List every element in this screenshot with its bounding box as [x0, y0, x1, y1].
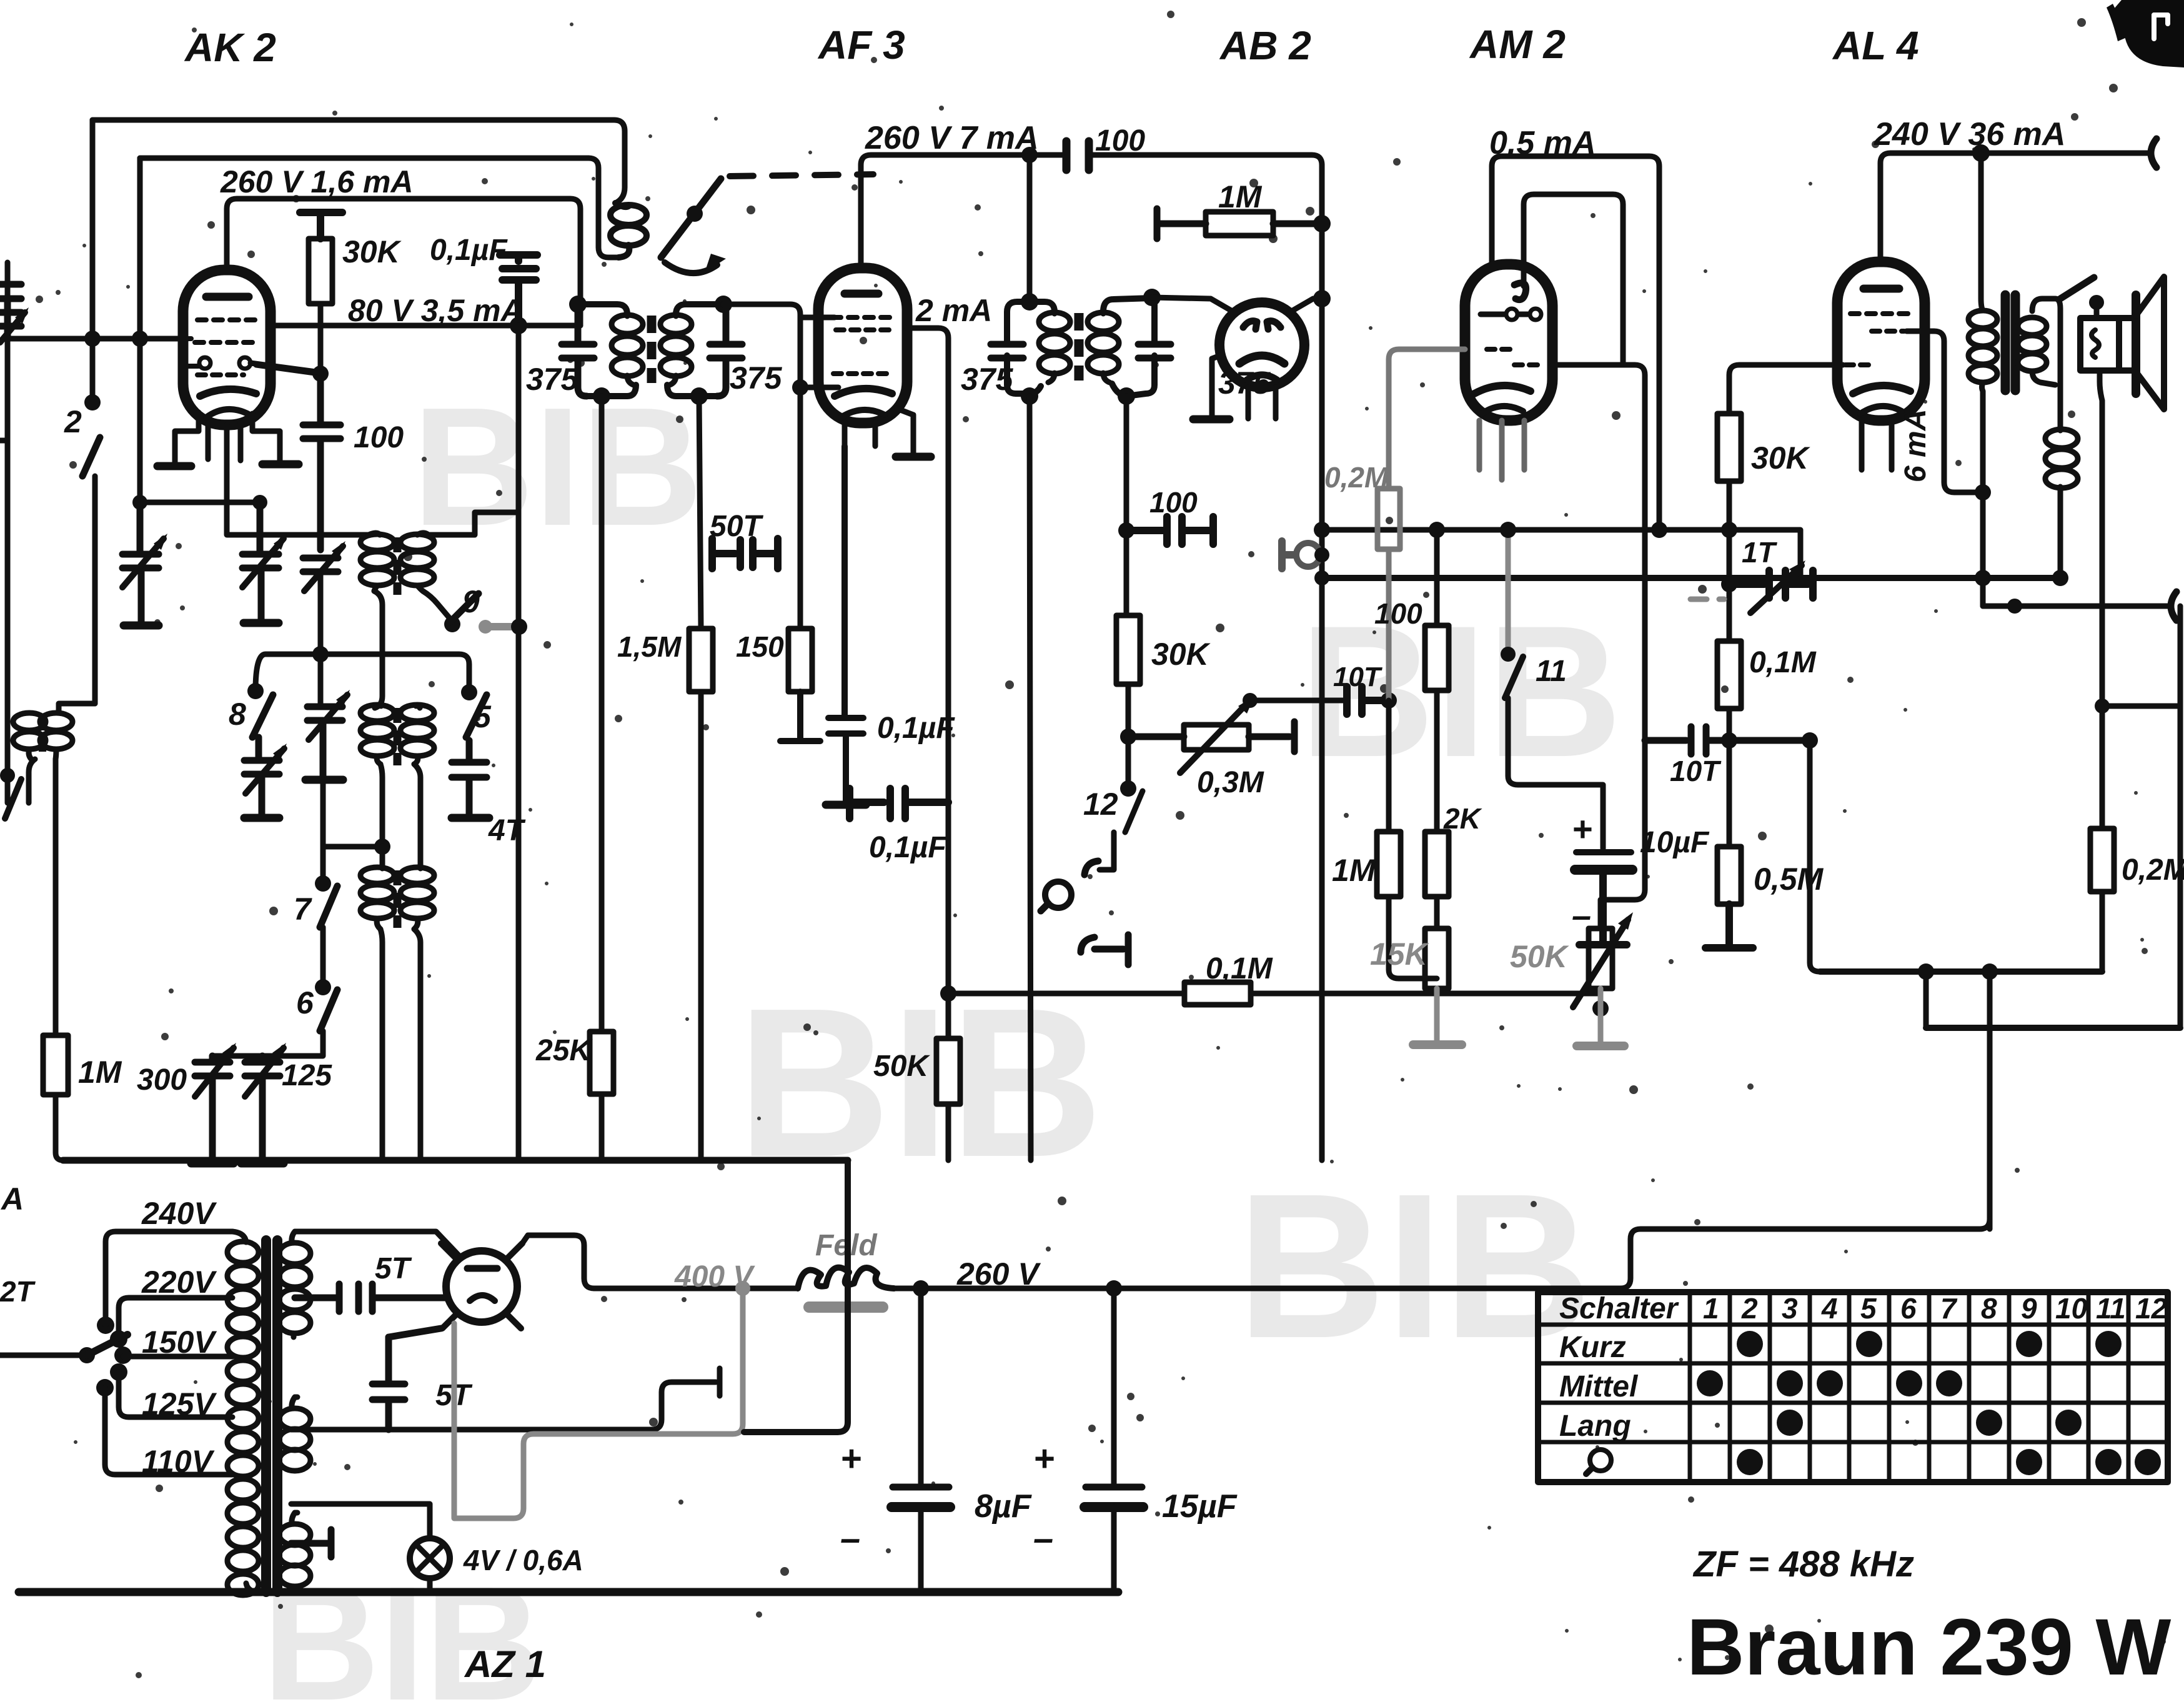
osc transformer T_B [360, 705, 434, 765]
wire far-left vertical [5, 262, 11, 803]
ground T5 [305, 776, 343, 784]
capacitor 100 series in rail [1066, 141, 1089, 170]
wire top rail 2 [140, 156, 588, 161]
svg-text:260 V 7 mA: 260 V 7 mA [865, 120, 1039, 156]
speaker cone [2119, 318, 2132, 371]
svg-text:260 V 1,6 mA: 260 V 1,6 mA [220, 164, 414, 199]
node dot 1M right [1313, 215, 1331, 232]
wire y1555 line [1820, 968, 2102, 975]
wire T_B left bottom to node [380, 764, 382, 847]
resistor 150 [798, 387, 803, 629]
svg-text:0,1M: 0,1M [1749, 646, 1817, 679]
table column lines [1690, 1292, 2128, 1482]
wire y1130 line [2102, 704, 2180, 709]
svg-text:+: + [1572, 809, 1592, 849]
wire 1M to bus [56, 1095, 63, 1160]
node dot y1555 x3083 [1918, 963, 1934, 980]
terminal hook rail right [2151, 139, 2157, 167]
wire 400V tap gray [454, 1288, 743, 1518]
wire AL4 screen to primary bottom [1907, 331, 1979, 492]
wire 30K top T [300, 212, 342, 239]
node dot diode line [1313, 290, 1331, 307]
label 400V gray [454, 1260, 755, 1518]
svg-text:240V: 240V [141, 1196, 217, 1231]
wire AB2 diode to vertical [1289, 299, 1322, 312]
svg-text:220V: 220V [141, 1265, 217, 1300]
svg-text:100: 100 [1095, 124, 1145, 157]
resistor 0.1M AL4 [1717, 641, 1741, 709]
wire 0.1M down [1727, 709, 1732, 847]
WATERMARKS [262, 373, 1622, 1707]
ground bus G [63, 1157, 848, 1164]
IF1 right leg capacitor 375 [710, 304, 742, 396]
ground T2 [244, 619, 279, 627]
IF1 left leg capacitor 375 [562, 304, 594, 396]
wire 25K to bus [599, 1094, 605, 1160]
node IF2 right bottom dot [1118, 387, 1135, 405]
svg-text:375: 375 [730, 361, 783, 396]
wire 50K to bus [946, 1104, 951, 1160]
ground 4T [452, 814, 489, 822]
wave switch arrow [665, 262, 717, 273]
wire HV top to AZ1 [295, 1232, 460, 1257]
wire AVC bus A [1322, 530, 1800, 584]
tube AZ1 circle [446, 1251, 517, 1322]
svg-text:10T: 10T [1333, 662, 1382, 692]
wire screen line from tube [256, 365, 319, 374]
ground 0.1uF bypass [826, 801, 866, 809]
svg-text:7: 7 [294, 892, 312, 927]
wire switch 11 to 10uF [1508, 698, 1603, 849]
wire ground L from bus G [744, 1160, 848, 1432]
trimmer far-left partial [0, 312, 21, 326]
svg-text:A: A [0, 1182, 24, 1217]
svg-text:0,2M: 0,2M [1324, 461, 1389, 494]
resistor 0.5M [1717, 847, 1741, 904]
capacitor 100 AB2 [1126, 517, 1213, 544]
tube AL4 anode bar [1864, 285, 1899, 293]
ground 125 [241, 1160, 284, 1168]
wire x517 up to T5 ground [320, 780, 326, 847]
node dot jack [1314, 547, 1329, 562]
capacitor 15uF [1106, 1280, 1122, 1296]
ground AF3 cathode [896, 453, 931, 461]
IF1 core [647, 316, 657, 383]
wire speaker return down [2100, 371, 2102, 829]
wire lamp to bus [427, 1578, 433, 1591]
node dot AM2 anode bus [1651, 522, 1667, 538]
wire 10T node down to 1M [1386, 700, 1392, 832]
svg-text:25K: 25K [535, 1034, 593, 1067]
node dot 220V contact [110, 1330, 127, 1348]
node screen dot [312, 366, 329, 382]
node dot bus B x2116 [1314, 570, 1329, 585]
svg-text:BIB: BIB [737, 964, 1103, 1202]
wire AF3 grid from IF1 [723, 304, 800, 387]
svg-text:AF 3: AF 3 [817, 22, 905, 67]
node dot y970 [2007, 599, 2022, 614]
switch table frame [1538, 1292, 2168, 1482]
IF2 right leg capacitor [1138, 344, 1171, 358]
wire screen circles row to 30K node [251, 363, 320, 372]
wire x152 to small coil [59, 704, 95, 712]
resistor 2K [1425, 832, 1449, 897]
svg-text:AL 4: AL 4 [1832, 23, 1919, 68]
tube AK2 anode bar [206, 293, 249, 301]
wire 1.5M down to bus [698, 692, 704, 1160]
table dots phono [1737, 1449, 2161, 1475]
svg-text:260 V: 260 V [956, 1257, 1041, 1291]
tube AB2 diode plates [1243, 321, 1281, 329]
wire HV centre tap [295, 1284, 339, 1311]
wire x513 to osc bus [318, 572, 324, 707]
terminal switch9 gray [479, 620, 516, 634]
svg-text:4T: 4T [488, 814, 526, 847]
node switch2 dot [84, 394, 101, 411]
svg-text:–: – [840, 1518, 860, 1559]
svg-text:100: 100 [1149, 486, 1198, 519]
node dot rail x1648 [1021, 147, 1038, 163]
tube AK2 grid rows [197, 317, 256, 322]
wire grid line into AK2 [7, 336, 187, 342]
tube AZ1 stubs [441, 1243, 522, 1328]
transformer heater secondary [279, 1513, 310, 1592]
svg-text:7: 7 [1940, 1292, 1958, 1325]
wire 1M bottom [1389, 897, 1437, 978]
node dot x3185 y1555 [1982, 963, 1998, 980]
node dot x224 grid [132, 331, 148, 347]
wire AK2 osc grid down [227, 425, 369, 535]
tube AK2 grid circles row [199, 357, 211, 369]
wire 260V rail AF3 [861, 155, 1322, 268]
svg-text:6: 6 [296, 985, 314, 1020]
capacitor 8uF [913, 1280, 929, 1296]
svg-text:0,1M: 0,1M [1206, 952, 1273, 985]
wire B+ line with Feld [594, 1286, 1621, 1291]
svg-text:10T: 10T [1670, 755, 1722, 787]
dashed stub gray [1690, 597, 1724, 602]
svg-text:6 mA: 6 mA [1899, 409, 1932, 482]
svg-text:10µF: 10µF [1640, 826, 1710, 859]
wire 0.2M down to y1555 [2100, 892, 2105, 972]
resistor 25K [590, 1032, 613, 1094]
table row lines [1538, 1325, 2168, 1442]
tube AF3 cathode arcs [835, 389, 892, 396]
wire AVC line 0.1M [948, 993, 1601, 1008]
svg-text:0,3M: 0,3M [1197, 766, 1264, 799]
svg-text:0,1µF: 0,1µF [869, 831, 947, 864]
node dot y1355 [374, 839, 390, 855]
capacitor 10T [1347, 687, 1389, 714]
svg-text:2K: 2K [1443, 802, 1482, 835]
osc transformer T_A [360, 533, 434, 595]
svg-text:8: 8 [1981, 1292, 1997, 1325]
wire AB2 cathode to ground [1212, 355, 1222, 417]
IF1 right tank box top [676, 304, 723, 314]
ground 0.5M [1705, 904, 1753, 948]
node dot 1T [1721, 576, 1737, 592]
node dot y849 [1118, 522, 1134, 539]
svg-text:12: 12 [2135, 1292, 2168, 1325]
svg-text:0,1µF: 0,1µF [430, 234, 508, 267]
wire IF2 top to AB2 diode [1152, 297, 1234, 312]
wire mains lead [0, 1353, 82, 1358]
node IF2 top-left dot [1021, 293, 1038, 311]
capacitor 0.1uF cathode bypass [828, 446, 863, 805]
table dots Kurz [1737, 1331, 2122, 1357]
svg-text:Schalter: Schalter [1559, 1292, 1679, 1325]
svg-text:2T: 2T [0, 1275, 36, 1308]
wire AB2 main vertical [1319, 165, 1325, 1160]
IF1 secondary coil loops [660, 315, 692, 385]
svg-text:Mittel: Mittel [1559, 1370, 1639, 1403]
svg-text:0,2M: 0,2M [2122, 853, 2184, 887]
speaker terminal dot [2089, 295, 2104, 310]
wire 100 to 2K [1434, 690, 1440, 832]
choke Feld [815, 1229, 878, 1262]
node dot x1518 AVC [940, 985, 956, 1002]
wire T_C right bottom down to bus [414, 929, 420, 1160]
wire x2897 down [1810, 740, 1820, 972]
wire right edge vertical [2178, 606, 2183, 1028]
tube AF3 envelope [818, 268, 907, 423]
phono jack AB2 [1282, 541, 1320, 569]
wire heater top to lamp [291, 1504, 430, 1538]
svg-text:100: 100 [1374, 597, 1422, 630]
svg-text:50K: 50K [873, 1050, 930, 1083]
ground 300 [191, 1160, 234, 1168]
node dot pot [1120, 729, 1136, 745]
antenna coupling coil L1 [610, 203, 647, 257]
wire far-left stub y700 [0, 438, 7, 444]
resistor 1M AB2 [1157, 209, 1322, 239]
wire jumper y1355 [323, 844, 382, 850]
node dot bus B right end [2052, 570, 2068, 586]
capacitor far-left to ground [0, 284, 21, 339]
node dot 150V contact [114, 1346, 132, 1364]
jumper y804 [140, 500, 260, 505]
svg-text:30K: 30K [1151, 637, 1211, 672]
svg-text:2: 2 [1741, 1292, 1758, 1325]
svg-text:8: 8 [229, 697, 246, 732]
ground under AK2 left [157, 462, 191, 470]
wire T_A left bottom down [374, 591, 382, 708]
svg-text:1,5M: 1,5M [617, 630, 682, 663]
svg-text:Kurz: Kurz [1559, 1331, 1626, 1364]
table header numbers [1703, 1292, 2168, 1325]
IF2 primary coil loops [1039, 312, 1070, 382]
wire heater centre tap [291, 1530, 331, 1557]
node dot 100 col bus [1429, 522, 1445, 538]
tube AL4 pins [1862, 421, 1892, 470]
node dot AVC bus x2116 [1314, 522, 1330, 538]
svg-text:15K: 15K [1370, 937, 1430, 972]
IF1 left bottom edge [587, 385, 636, 396]
transformer HV secondary [279, 1232, 310, 1337]
output transformer primary [1968, 153, 1997, 606]
wire screen stub [800, 315, 835, 321]
tube AZ1 anode bars [467, 1265, 497, 1272]
jack hook upper [1085, 861, 1098, 875]
svg-text:11: 11 [1536, 655, 1567, 688]
tube AL4 envelope [1837, 262, 1925, 421]
svg-text:150: 150 [736, 630, 784, 663]
ground 15K gray [1434, 988, 1440, 1042]
wire coil bottom to rail2 corner [588, 158, 618, 257]
resistor 0.1M horizontal [1184, 982, 1251, 1005]
svg-text:30K: 30K [1751, 440, 1811, 475]
wire 30K to pot [1126, 684, 1131, 737]
node IF1 right bottom dot [690, 387, 708, 405]
wire osc bus y1047 [256, 654, 469, 692]
potentiometer 50K AM2 [1589, 928, 1612, 988]
svg-text:300: 300 [137, 1063, 187, 1097]
transformer core [266, 1240, 277, 1592]
wire IF2 right bottom down [1124, 396, 1129, 615]
svg-text:240 V 36 mA: 240 V 36 mA [1874, 116, 2065, 152]
svg-text:1M: 1M [1332, 853, 1376, 888]
wire 30K bottom to screen node [318, 304, 324, 374]
svg-text:6: 6 [1900, 1292, 1917, 1325]
svg-text:4: 4 [1821, 1292, 1838, 1325]
wire grid into tube [800, 385, 838, 391]
resistor 1M left [43, 1035, 68, 1095]
wire hook line y970 [1983, 604, 2169, 609]
capacitor 0.1uF coupling [850, 789, 948, 819]
svg-text:Lang: Lang [1559, 1410, 1631, 1443]
node dot 240V contact [97, 1316, 114, 1334]
wire T_A right top jumper [429, 512, 519, 535]
node IF2 top-right dot [1143, 289, 1161, 306]
svg-text:125: 125 [282, 1059, 332, 1092]
svg-text:1M: 1M [1218, 179, 1263, 214]
wire x3083 down [1923, 972, 1929, 1028]
IF2 right tank box [1103, 298, 1154, 396]
node dot rail x3171 [1972, 144, 1990, 162]
resistor 15K [1425, 928, 1449, 988]
svg-text:50K: 50K [1510, 939, 1570, 974]
jack circle [1045, 882, 1071, 908]
svg-text:1T: 1T [1742, 536, 1778, 569]
resistor 1M AM2 [1377, 832, 1401, 897]
wire AM2 outer anode loop [1492, 156, 1659, 530]
switch 11 [1506, 530, 1511, 652]
tube AM2 cathode arcs [1474, 386, 1531, 394]
wire AL4 anode rail [1880, 153, 2149, 262]
power bottom bus [19, 1588, 1118, 1596]
node dot 0.1uF junction [510, 317, 527, 334]
svg-text:5: 5 [1860, 1292, 1877, 1325]
wire AM2 grid2 to pot column [1552, 365, 1645, 928]
svg-text:2: 2 [64, 404, 82, 439]
wire IF1 left bottom to 25K [599, 396, 605, 1032]
wire AZ1 to B+ [522, 1235, 594, 1288]
ground T1 [124, 622, 159, 630]
wave switch dashed line [730, 174, 873, 176]
wire B+ to right riser [1621, 1219, 1990, 1288]
tube AF3 anode bar [845, 290, 878, 298]
resistor 50K AF3 [936, 1038, 960, 1104]
wire IF2 left bottom long down [1030, 396, 1031, 1160]
wire AF3 anode down [907, 328, 948, 1038]
osc transformer T_C [360, 847, 434, 929]
svg-text:AB 2: AB 2 [1219, 23, 1311, 68]
svg-text:ZF = 488 kHz: ZF = 488 kHz [1692, 1544, 1914, 1585]
svg-text:AK 2: AK 2 [184, 25, 276, 70]
svg-text:15µF: 15µF [1162, 1488, 1238, 1525]
wire y1645 line [1926, 1025, 2180, 1031]
lamp 4V 0.6A [410, 1538, 450, 1578]
wire secondary right leg upper [2055, 299, 2060, 429]
svg-text:3: 3 [1782, 1292, 1798, 1325]
transformer primary winding [227, 1232, 259, 1595]
table dots Lang [1777, 1410, 2082, 1436]
wire small coil to 1M [29, 759, 56, 1035]
ground 50K gray [1598, 988, 1604, 1043]
terminal hook y970 [2171, 592, 2177, 620]
wire IF1 right bottom to 1.5M [699, 396, 701, 629]
node grid bus dot x148 [84, 331, 101, 347]
node dot y1130 [2095, 699, 2110, 714]
IF1 primary coil loops [612, 315, 643, 385]
trimmer cap T5 [307, 707, 342, 780]
wire top rail 1 [92, 120, 625, 203]
wire rail to IF2 top [1027, 155, 1033, 302]
small antenna coil left column [13, 713, 72, 759]
wire AM2 inner loop [1524, 194, 1623, 363]
IF1 right bottom edge [667, 385, 717, 396]
node IF1 top-left dot [569, 296, 587, 313]
node dot primary bottom [1975, 484, 1991, 500]
node dot 10T out [1381, 692, 1397, 709]
wire speaker feed diagonal [2060, 277, 2094, 299]
tube AF3 pins [845, 409, 913, 455]
table dots Mittel [1697, 1370, 1962, 1396]
svg-text:1: 1 [1703, 1292, 1719, 1325]
ground T4 [244, 814, 279, 822]
node dot 10T AL4 [1721, 732, 1737, 749]
wire left vertical x224 [137, 158, 143, 553]
capacitor 100 screen bypass [303, 374, 340, 550]
wave switch lever [661, 179, 721, 257]
svg-text:Braun 239 W: Braun 239 W [1687, 1603, 2172, 1692]
capacitor 10T AL4 [1645, 727, 1806, 754]
svg-text:2 mA: 2 mA [915, 293, 992, 328]
node dot x3174 on bus B [1975, 570, 1991, 586]
svg-text:AM 2: AM 2 [1469, 22, 1566, 67]
resistor 0.2M right [2090, 829, 2114, 892]
svg-text:–: – [1033, 1518, 1053, 1559]
svg-text:375: 375 [526, 362, 579, 397]
tube AK2 cathode arcs [200, 389, 256, 396]
wire pot wiper to 10T [1250, 698, 1343, 704]
resistor 30K AB2 [1116, 615, 1140, 684]
node IF2 left bottom dot [1021, 387, 1038, 405]
node dot 30K avc [1721, 522, 1737, 538]
trimmer cap T2 [242, 502, 279, 623]
corner logo top-right [2107, 0, 2184, 67]
output transformer core [2005, 295, 2015, 391]
wire T_C left bottom down to bus [380, 929, 382, 1160]
trimmer cap T1 [122, 502, 159, 625]
svg-text:4V / 0,6A: 4V / 0,6A [463, 1544, 583, 1576]
tube AM2 grid dashes [1487, 347, 1513, 352]
wire T_A right bottom to switch9 [423, 591, 451, 620]
svg-text:12: 12 [1083, 787, 1118, 822]
svg-text:9: 9 [2021, 1292, 2037, 1325]
tube AM2 target circles [1481, 312, 1529, 317]
hum coil [2045, 429, 2078, 503]
